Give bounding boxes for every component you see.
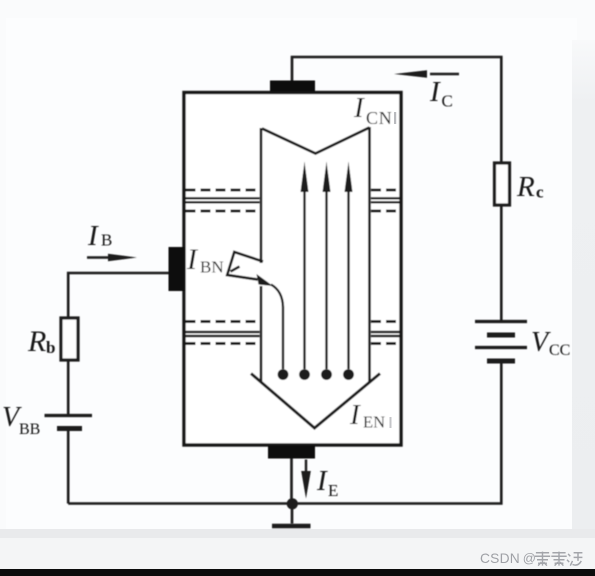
svg-text:b: b — [46, 338, 55, 357]
svg-text:CSDN: CSDN — [480, 551, 520, 566]
svg-text:B: B — [101, 231, 112, 250]
svg-text:I: I — [349, 399, 361, 431]
svg-text:BB: BB — [19, 421, 40, 438]
svg-text:BN: BN — [200, 258, 224, 277]
svg-text:C: C — [442, 92, 453, 111]
svg-text:I: I — [87, 220, 99, 252]
svg-text:c: c — [536, 183, 544, 202]
svg-text:E: E — [328, 481, 338, 500]
svg-text:V: V — [531, 327, 551, 358]
svg-text:I: I — [429, 76, 441, 108]
svg-text:CC: CC — [549, 342, 570, 359]
svg-text:R: R — [516, 171, 535, 203]
svg-text:CN: CN — [366, 108, 393, 128]
svg-text:I: I — [353, 92, 365, 124]
svg-text:R: R — [27, 325, 46, 358]
svg-text:EN: EN — [363, 413, 385, 432]
svg-text:@: @ — [523, 551, 536, 566]
svg-text:I: I — [316, 465, 328, 497]
